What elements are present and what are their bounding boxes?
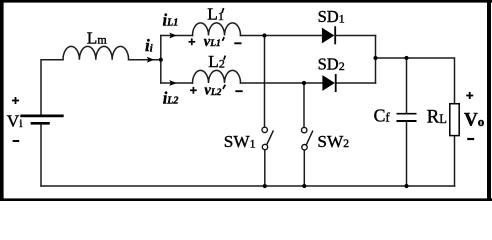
junction dot SW2 bottom (302, 184, 306, 188)
label + output (466, 92, 473, 99)
junction dot Cf top (404, 56, 408, 60)
label + battery (12, 97, 19, 104)
wire L2' to SD2 (241, 82, 323, 84)
wire Cf top (406, 58, 408, 113)
diode SD1 (322, 26, 335, 44)
wire Cf bottom (406, 122, 408, 186)
label L2' (208, 52, 225, 71)
wire node A to L1' (161, 35, 193, 37)
wire SW2 lower (303, 150, 305, 186)
arrow current i_L1 (169, 33, 177, 39)
border frame left (0, 0, 4, 201)
junction dot output node (373, 56, 377, 60)
battery Vi plates (20, 116, 63, 123)
wire node A to L2' (161, 82, 193, 84)
wire battery top to Lm (41, 60, 63, 115)
wire output node to RL top (376, 58, 455, 104)
wire battery bottom down (40, 125, 42, 186)
border frame top (0, 0, 492, 3)
junction dot SW1 bottom (263, 184, 267, 188)
wire SD1 to right corner (336, 35, 376, 37)
border frame right (487, 0, 491, 201)
wire L1' to SD1 (241, 35, 323, 37)
junction dot SW1 top (262, 33, 266, 37)
inductor L1' (193, 23, 241, 36)
label - output (467, 138, 474, 140)
wire Lm to node A (129, 59, 161, 61)
node A junction dot (159, 58, 163, 62)
label + v_L2' (190, 87, 197, 94)
wire SW2 upper (303, 83, 305, 127)
diode SD2 (323, 74, 336, 92)
wire RL bottom down (454, 136, 456, 186)
arrow current i_L2 (169, 80, 177, 86)
junction dot Cf bottom (404, 184, 408, 188)
inductor L2' (193, 70, 241, 83)
wire node A vertical (160, 36, 162, 84)
wire right vertical diode join (375, 36, 377, 84)
resistor RL box (450, 104, 459, 136)
junction dot SW2 top (302, 81, 306, 85)
wire SD2 to right corner (336, 82, 376, 84)
label L1' (207, 5, 224, 24)
border frame bottom (0, 198, 492, 201)
capacitor Cf plates (397, 114, 417, 121)
arrow current i_i (147, 57, 155, 63)
wire bottom rail (41, 185, 455, 187)
label + v_L1' (189, 38, 196, 45)
wire SW1 lower (264, 150, 266, 186)
wire SW1 upper (264, 36, 266, 127)
switch SW1 (262, 127, 273, 150)
switch SW2 (302, 127, 313, 149)
inductor Lm (63, 46, 129, 59)
label - battery (13, 140, 20, 142)
